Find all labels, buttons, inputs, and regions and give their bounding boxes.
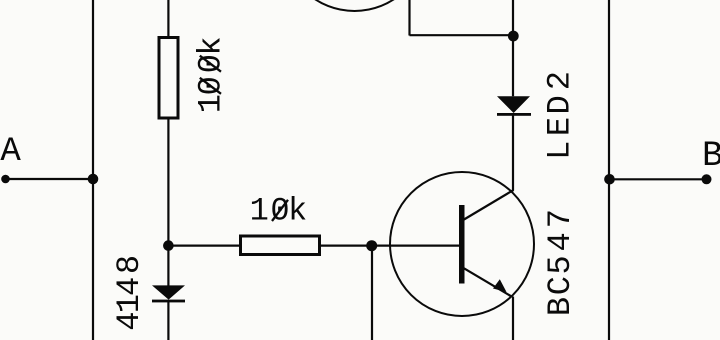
wire top feed of 100k xyxy=(167,0,169,36)
slash of second zero xyxy=(200,56,221,72)
svg-text:k: k xyxy=(288,193,307,230)
svg-text:D: D xyxy=(541,95,578,114)
slash of zero xyxy=(272,200,288,221)
junction base row left xyxy=(163,240,174,251)
node B terminal dot xyxy=(702,174,712,184)
transistor Q1 BC547 circle xyxy=(390,172,534,316)
svg-text:4: 4 xyxy=(542,232,579,251)
svg-text:8: 8 xyxy=(111,255,148,274)
wire junction to diode xyxy=(167,246,169,286)
wire 10k to base junction xyxy=(321,245,459,247)
node A terminal dot xyxy=(1,175,10,184)
junction on left rail xyxy=(88,174,99,185)
wire junction to 10k xyxy=(168,245,239,247)
transistor circle partial at top xyxy=(283,0,427,11)
LED2 cathode bar xyxy=(497,113,531,116)
svg-text:1: 1 xyxy=(250,193,269,230)
svg-text:2: 2 xyxy=(541,71,578,90)
LED2 triangle xyxy=(497,96,530,113)
wire B xyxy=(610,178,707,180)
svg-text:7: 7 xyxy=(542,209,579,228)
wire collector up to LED xyxy=(512,115,514,191)
junction top xyxy=(508,31,519,42)
svg-text:5: 5 xyxy=(542,255,579,274)
wire top horizontal xyxy=(410,34,514,36)
diode D1 cathode bar xyxy=(152,300,185,303)
resistor 10k label xyxy=(250,193,308,230)
transistor Q1 base bar xyxy=(459,205,465,284)
wire left rail xyxy=(92,0,94,340)
svg-text:A: A xyxy=(0,133,21,171)
transistor Q1 emitter diagonal xyxy=(464,268,512,296)
svg-text:4: 4 xyxy=(111,312,148,331)
junction base node xyxy=(366,240,377,251)
svg-text:1: 1 xyxy=(193,94,230,113)
svg-text:L: L xyxy=(541,141,578,160)
svg-text:C: C xyxy=(542,276,579,295)
resistor 10k body xyxy=(241,236,320,255)
wire base node down to bottom edge xyxy=(371,246,373,340)
wire diode to bottom edge xyxy=(167,302,169,340)
wire right rail xyxy=(608,0,610,340)
wire emitter to bottom edge xyxy=(512,297,514,340)
resistor 100k label xyxy=(193,36,230,113)
svg-text:k: k xyxy=(193,36,230,55)
svg-text:B: B xyxy=(542,297,579,316)
junction right rail xyxy=(604,174,615,185)
wire top vertical stub xyxy=(408,0,410,36)
svg-text:B: B xyxy=(702,136,720,176)
diode D1 1N4148 triangle xyxy=(152,285,185,299)
wire 100k bottom to junction xyxy=(167,120,169,246)
wire LED up to top junction xyxy=(512,0,514,96)
slash of first zero xyxy=(200,78,221,94)
svg-text:E: E xyxy=(541,117,578,136)
diode D1 label 4148 xyxy=(111,255,148,331)
transistor Q1 emitter arrow xyxy=(493,279,507,292)
svg-text:4: 4 xyxy=(111,277,148,296)
wire A to left rail xyxy=(6,178,94,180)
resistor 100k body xyxy=(159,38,178,119)
transistor Q1 label BC547 xyxy=(542,209,579,316)
LED2 label xyxy=(541,71,578,160)
transistor Q1 collector diagonal xyxy=(464,190,514,220)
